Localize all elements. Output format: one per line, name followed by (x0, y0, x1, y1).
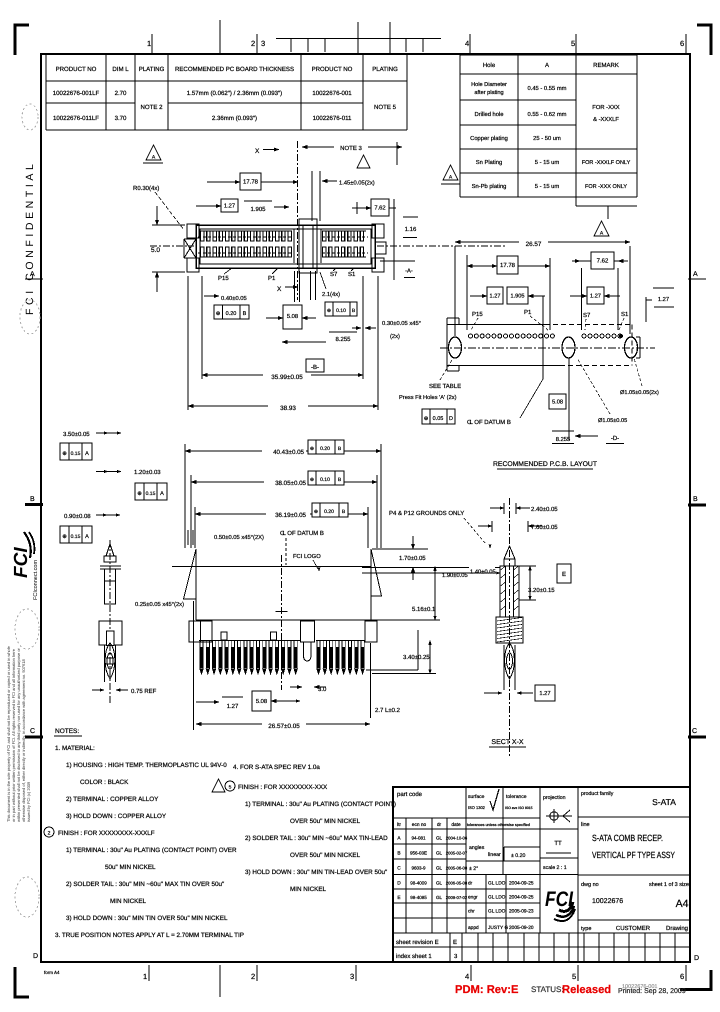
svg-text:Sn Plating: Sn Plating (476, 159, 502, 166)
svg-text:P1: P1 (268, 275, 276, 282)
svg-text:RECOMMENDED P.C.B. LAYOUT: RECOMMENDED P.C.B. LAYOUT (493, 461, 597, 468)
svg-text:R0.30(4x): R0.30(4x) (133, 185, 159, 192)
svg-text:5 - 15 um: 5 - 15 um (535, 184, 560, 190)
svg-text:GL: GL (436, 836, 443, 841)
svg-text:Ø1.05±0.05(2x): Ø1.05±0.05(2x) (620, 389, 659, 396)
svg-text:1.57mm (0.062") / 2.36mm (0.09: 1.57mm (0.062") / 2.36mm (0.093") (187, 90, 282, 97)
svg-text:10022676-011LF: 10022676-011LF (53, 115, 99, 122)
svg-text:2005-02-07: 2005-02-07 (446, 851, 468, 856)
svg-text:⊕: ⊕ (314, 509, 318, 515)
svg-text:Released: Released (562, 984, 611, 996)
svg-text:after plating: after plating (474, 89, 503, 96)
svg-text:FOR -XXX: FOR -XXX (592, 104, 620, 111)
svg-text:25 - 50 um: 25 - 50 um (533, 135, 561, 142)
svg-text:angles: angles (469, 845, 485, 851)
svg-text:FCI: FCI (11, 547, 32, 578)
svg-text:9603-9: 9603-9 (411, 866, 426, 871)
svg-text:0.55 - 0.62 mm: 0.55 - 0.62 mm (528, 111, 567, 118)
svg-text:1.27: 1.27 (490, 294, 501, 300)
svg-text:0.30±0.05 x45°: 0.30±0.05 x45° (382, 320, 421, 327)
svg-text:94-081: 94-081 (411, 836, 426, 841)
svg-text:3) HOLD DOWN : 30u" MIN TIN-LE: 3) HOLD DOWN : 30u" MIN TIN-LEAD OVER 50… (245, 869, 387, 876)
svg-text:date: date (451, 822, 461, 828)
svg-text:2.70: 2.70 (115, 90, 127, 97)
svg-text:5.16±0.1: 5.16±0.1 (412, 606, 436, 613)
svg-text:P15: P15 (218, 275, 229, 282)
svg-text:5.08: 5.08 (256, 698, 267, 705)
svg-text:FOR -XXX ONLY: FOR -XXX ONLY (585, 184, 627, 190)
svg-text:FINISH : FOR XXXXXXXX-XXXLF: FINISH : FOR XXXXXXXX-XXXLF (58, 830, 155, 837)
svg-text:1.27: 1.27 (590, 294, 601, 300)
svg-text:FCI CONFIDENTIAL: FCI CONFIDENTIAL (24, 161, 36, 315)
svg-text:linear: linear (488, 852, 501, 858)
svg-text:Hole: Hole (483, 62, 496, 69)
svg-text:NOTE 3: NOTE 3 (340, 145, 362, 152)
svg-text:0.15: 0.15 (71, 534, 81, 540)
svg-text:3) HOLD DOWN : COPPER ALLOY: 3) HOLD DOWN : COPPER ALLOY (66, 813, 167, 820)
svg-text:CUSTOMER: CUSTOMER (616, 925, 651, 932)
svg-text:10022676-001: 10022676-001 (312, 90, 352, 97)
svg-text:S7: S7 (330, 271, 338, 278)
svg-text:B: B (397, 851, 400, 857)
svg-text:GL: GL (436, 881, 443, 886)
svg-text:NOTE 2: NOTE 2 (140, 104, 163, 111)
svg-text:0.20: 0.20 (226, 311, 237, 317)
svg-text:35.99±0.05: 35.99±0.05 (271, 374, 303, 381)
svg-text:3: 3 (350, 972, 354, 981)
svg-text:2: 2 (251, 972, 255, 981)
svg-text:1.27: 1.27 (224, 203, 235, 210)
svg-text:1.27: 1.27 (539, 690, 550, 697)
svg-text:Press Fit Holes 'A' (2x): Press Fit Holes 'A' (2x) (399, 394, 457, 401)
svg-text:GL: GL (436, 851, 443, 856)
svg-text:0.10: 0.10 (336, 308, 346, 314)
svg-text:SEE TABLE: SEE TABLE (429, 383, 461, 390)
svg-text:S1: S1 (621, 311, 629, 318)
svg-text:& -XXXLF: & -XXXLF (593, 116, 619, 123)
svg-text:5: 5 (571, 39, 575, 48)
svg-text:40.43±0.05: 40.43±0.05 (273, 449, 304, 456)
svg-text:3.40±0.25: 3.40±0.25 (403, 654, 430, 661)
svg-text:MIN NICKEL: MIN NICKEL (110, 898, 147, 905)
svg-text:10022676-001LF: 10022676-001LF (53, 90, 100, 97)
svg-text:PRODUCT NO: PRODUCT NO (56, 66, 97, 73)
svg-text:⊕: ⊕ (424, 416, 429, 422)
svg-text:98-4009: 98-4009 (410, 881, 427, 886)
svg-text:4: 4 (465, 39, 469, 48)
svg-text:tolerance: tolerance (506, 794, 527, 800)
svg-text:36.19±0.05: 36.19±0.05 (275, 512, 306, 519)
svg-text:⊕: ⊕ (310, 477, 314, 483)
svg-text:STATUS:: STATUS: (531, 985, 564, 994)
svg-text:JUSTY G: JUSTY G (488, 925, 508, 931)
svg-text:ecn no: ecn no (412, 823, 427, 828)
svg-text:1.20±0.03: 1.20±0.03 (134, 469, 161, 476)
svg-text:2: 2 (48, 831, 51, 837)
svg-text:10022676: 10022676 (592, 898, 623, 905)
svg-text:D: D (449, 416, 453, 422)
svg-text:1) TERMINAL : 30u" Au PLATING: 1) TERMINAL : 30u" Au PLATING (CONTACT P… (66, 847, 237, 854)
svg-text:dwg no: dwg no (581, 882, 599, 888)
svg-text:0.50±0.05 x45°(2X): 0.50±0.05 x45°(2X) (214, 534, 264, 541)
svg-text:X: X (255, 148, 260, 155)
svg-text:Drawing: Drawing (666, 925, 688, 932)
svg-text:6: 6 (680, 39, 684, 48)
svg-text:1.27: 1.27 (227, 703, 239, 710)
svg-text:FCIconnect.com: FCIconnect.com (33, 560, 39, 600)
svg-text:3.20±0.15: 3.20±0.15 (528, 587, 555, 594)
svg-text:1: 1 (147, 39, 151, 48)
svg-text:-A-: -A- (405, 269, 413, 275)
svg-text:3.70: 3.70 (115, 115, 127, 122)
svg-text:GL LDO: GL LDO (488, 909, 506, 915)
svg-text:line: line (581, 822, 590, 828)
svg-text:1.905: 1.905 (511, 294, 525, 300)
svg-text:B: B (243, 311, 247, 317)
svg-text:GL LDO: GL LDO (488, 895, 506, 901)
svg-text:D: D (694, 955, 699, 962)
svg-text:tolerances unless otherwise sp: tolerances unless otherwise specified (467, 823, 530, 827)
svg-text:DIM L: DIM L (112, 66, 129, 73)
svg-text:sheet 1 of 3 size: sheet 1 of 3 size (649, 882, 689, 888)
svg-text:dr: dr (468, 881, 473, 887)
svg-text:0.20: 0.20 (324, 509, 334, 515)
svg-text:4. FOR S-ATA SPEC REV 1.0a: 4. FOR S-ATA SPEC REV 1.0a (233, 764, 320, 771)
svg-text:2.1(4x): 2.1(4x) (322, 291, 340, 298)
svg-text:D: D (397, 881, 401, 887)
svg-text:17.78: 17.78 (243, 179, 259, 186)
svg-text:± 2°: ± 2° (469, 866, 478, 872)
svg-text:L OF DATUM B: L OF DATUM B (283, 530, 324, 537)
svg-text:-B-: -B- (311, 364, 319, 371)
svg-text:COLOR : BLACK: COLOR : BLACK (80, 779, 129, 786)
svg-text:A: A (85, 451, 89, 457)
svg-text:5.08: 5.08 (552, 400, 563, 406)
svg-text:38.93: 38.93 (280, 405, 296, 412)
svg-text:PDM: Rev:E: PDM: Rev:E (455, 984, 519, 996)
svg-text:7.62: 7.62 (597, 258, 609, 265)
svg-text:2) SOLDER TAIL : 30u" MIN ~60u: 2) SOLDER TAIL : 30u" MIN ~60u" MAX TIN … (66, 881, 224, 888)
svg-text:issued by FCI (c) 2009: issued by FCI (c) 2009 (26, 781, 31, 822)
svg-text:1.905: 1.905 (250, 206, 266, 213)
svg-text:appd: appd (468, 925, 479, 931)
svg-text:2005-09-23: 2005-09-23 (509, 909, 534, 915)
svg-text:2: 2 (251, 39, 255, 48)
svg-text:2004-10-06: 2004-10-06 (446, 836, 468, 841)
svg-text:1.70±0.05: 1.70±0.05 (399, 555, 426, 562)
svg-text:5 - 15 um: 5 - 15 um (535, 160, 560, 166)
svg-text:4: 4 (465, 972, 469, 981)
svg-text:3.0: 3.0 (318, 686, 327, 693)
svg-text:D: D (33, 953, 38, 960)
svg-text:part code: part code (397, 791, 423, 798)
svg-text:2005-06-08: 2005-06-08 (446, 866, 468, 871)
svg-text:3: 3 (261, 39, 265, 48)
svg-text:1) HOUSING : HIGH TEMP. THERMO: 1) HOUSING : HIGH TEMP. THERMOPLASTIC UL… (66, 762, 227, 769)
svg-text:S7: S7 (583, 312, 591, 319)
svg-text:3. TRUE POSITION NOTES APPLY A: 3. TRUE POSITION NOTES APPLY AT L = 2.70… (55, 932, 244, 939)
svg-text:0.10: 0.10 (320, 477, 330, 483)
svg-text:PLATING: PLATING (372, 66, 398, 73)
svg-text:GL LDO: GL LDO (488, 881, 506, 887)
svg-text:P1: P1 (524, 309, 532, 316)
svg-text:⊕: ⊕ (327, 308, 331, 314)
svg-text:FOR -XXXLF ONLY: FOR -XXXLF ONLY (582, 160, 631, 166)
svg-text:C: C (397, 866, 401, 872)
svg-text:2) SOLDER TAIL : 30u" MIN ~60u: 2) SOLDER TAIL : 30u" MIN ~60u" MAX TIN-… (245, 835, 388, 842)
svg-text:E: E (453, 939, 457, 946)
svg-text:B: B (30, 496, 35, 503)
svg-text:2006-05-08: 2006-05-08 (446, 881, 468, 886)
svg-text:Hole Diameter: Hole Diameter (471, 81, 507, 88)
svg-text:L OF DATUM B: L OF DATUM B (470, 419, 511, 426)
svg-text:2005-09-20: 2005-09-20 (509, 925, 534, 931)
svg-text:E: E (397, 895, 400, 901)
svg-text:Ø1.05±0.05: Ø1.05±0.05 (598, 418, 627, 424)
svg-text:2.7 L±0.2: 2.7 L±0.2 (375, 707, 401, 714)
svg-text:7.60±0.05: 7.60±0.05 (531, 524, 558, 531)
svg-text:8.255: 8.255 (335, 336, 351, 343)
svg-text:5: 5 (572, 972, 576, 981)
svg-text:NOTE 5: NOTE 5 (374, 104, 397, 111)
svg-text:2004-09-25: 2004-09-25 (509, 881, 534, 887)
svg-text:0.25±0.05 x45°(2x): 0.25±0.05 x45°(2x) (135, 601, 184, 608)
svg-text:(2x): (2x) (390, 333, 400, 340)
svg-text:3.50±0.05: 3.50±0.05 (63, 431, 90, 438)
svg-text:A: A (85, 534, 89, 540)
svg-text:S-ATA: S-ATA (652, 797, 676, 807)
svg-text:Drilled hole: Drilled hole (475, 111, 504, 118)
svg-text:scale 2 : 1: scale 2 : 1 (543, 865, 567, 871)
svg-text:⊕: ⊕ (310, 446, 314, 452)
svg-text:index sheet 1: index sheet 1 (396, 953, 432, 960)
svg-text:TT: TT (554, 840, 562, 847)
svg-text:FCI LOGO: FCI LOGO (293, 553, 321, 560)
svg-text:50u" MIN NICKEL: 50u" MIN NICKEL (105, 864, 156, 871)
svg-text:P4 & P12 GROUNDS ONLY: P4 & P12 GROUNDS ONLY (389, 510, 464, 517)
svg-text:0.20: 0.20 (320, 446, 330, 452)
svg-text:1.16: 1.16 (405, 226, 417, 233)
svg-text:5.0: 5.0 (151, 247, 160, 254)
svg-text:dr: dr (437, 822, 442, 828)
svg-text:8.255: 8.255 (556, 436, 571, 443)
svg-text:2.40±0.05: 2.40±0.05 (531, 506, 558, 513)
svg-text:3) HOLD DOWN : 30u" MIN TIN OV: 3) HOLD DOWN : 30u" MIN TIN OVER 50u" MI… (66, 915, 228, 922)
svg-text:2.36mm (0.093"): 2.36mm (0.093") (212, 115, 257, 122)
svg-text:1. MATERIAL:: 1. MATERIAL: (55, 745, 95, 752)
svg-text:surface: surface (468, 794, 485, 800)
svg-text:1.45±0.05(2x): 1.45±0.05(2x) (339, 180, 375, 187)
svg-text:Copper plating: Copper plating (470, 135, 508, 142)
svg-text:A: A (693, 271, 698, 278)
svg-text:10022676-011: 10022676-011 (313, 115, 352, 122)
svg-text:S-ATA COMB RECEP.: S-ATA COMB RECEP. (592, 833, 663, 843)
svg-text:MIN NICKEL: MIN NICKEL (290, 886, 327, 893)
svg-text:C: C (692, 728, 697, 735)
svg-text:FINISH : FOR XXXXXXXX-XXX: FINISH : FOR XXXXXXXX-XXX (238, 784, 328, 791)
svg-text:SECT X-X: SECT X-X (491, 739, 523, 746)
svg-text:X: X (277, 286, 282, 293)
svg-text:5.08: 5.08 (287, 313, 298, 320)
svg-text:98-4085: 98-4085 (410, 895, 427, 900)
svg-text:A4: A4 (676, 898, 689, 910)
svg-text:1.40±0.05: 1.40±0.05 (470, 569, 496, 576)
svg-text:PLATING: PLATING (139, 66, 165, 73)
svg-text:Printed: Sep 28, 2009: Printed: Sep 28, 2009 (618, 987, 686, 995)
svg-text:A: A (545, 62, 549, 69)
svg-text:-D-: -D- (611, 435, 619, 442)
svg-text:0.40±0.05: 0.40±0.05 (221, 295, 247, 302)
svg-text:0.15: 0.15 (146, 491, 156, 497)
svg-text:6: 6 (680, 972, 684, 981)
svg-text:2004-09-25: 2004-09-25 (509, 895, 534, 901)
svg-text:ISO 1302: ISO 1302 (468, 805, 486, 810)
svg-text:⊕: ⊕ (62, 534, 67, 540)
svg-text:1.27: 1.27 (658, 296, 669, 303)
svg-text:chr: chr (468, 909, 475, 915)
svg-text:A: A (160, 491, 164, 497)
svg-text:C: C (30, 728, 35, 735)
svg-text:26.57: 26.57 (526, 241, 542, 248)
svg-text:17.78: 17.78 (500, 262, 516, 269)
svg-text:NOTES:: NOTES: (55, 728, 79, 735)
svg-text:5: 5 (229, 785, 232, 791)
svg-text:956-03E: 956-03E (410, 851, 427, 856)
svg-text:± 0.20: ± 0.20 (511, 853, 525, 859)
svg-text:⊕: ⊕ (216, 311, 221, 317)
svg-text:1) TERMINAL : 30u" Au PLATING: 1) TERMINAL : 30u" Au PLATING (CONTACT P… (245, 801, 396, 808)
svg-text:0.75 REF: 0.75 REF (131, 688, 157, 695)
svg-text:0.45 - 0.55 mm: 0.45 - 0.55 mm (528, 85, 567, 92)
svg-text:26.57±0.05: 26.57±0.05 (268, 723, 300, 730)
svg-text:7.62: 7.62 (374, 205, 385, 212)
svg-text:0.15: 0.15 (71, 451, 81, 457)
svg-text:Sn-Pb plating: Sn-Pb plating (472, 183, 507, 190)
svg-text:projection: projection (543, 795, 566, 801)
svg-text:38.05±0.05: 38.05±0.05 (275, 480, 306, 487)
svg-text:ltr: ltr (397, 822, 401, 828)
svg-text:VERTICAL PF TYPE ASSY: VERTICAL PF TYPE ASSY (592, 850, 675, 860)
svg-text:P15: P15 (472, 311, 483, 318)
svg-text:B: B (693, 496, 698, 503)
svg-text:REMARK: REMARK (593, 62, 619, 69)
svg-text:OVER 50u" MIN NICKEL: OVER 50u" MIN NICKEL (290, 818, 361, 825)
svg-text:sheet revision E: sheet revision E (396, 939, 439, 946)
svg-text:form A4: form A4 (44, 970, 60, 975)
svg-text:GL: GL (436, 866, 443, 871)
svg-text:PRODUCT NO: PRODUCT NO (312, 66, 353, 73)
svg-text:E: E (562, 571, 566, 578)
svg-text:S1: S1 (348, 271, 356, 278)
svg-text:ISO ave ISO 8015: ISO ave ISO 8015 (505, 806, 533, 810)
svg-text:⊕: ⊕ (62, 451, 67, 457)
svg-text:engr: engr (468, 896, 478, 901)
svg-text:GL: GL (436, 895, 443, 900)
svg-text:RECOMMENDED PC BOARD THICKNESS: RECOMMENDED PC BOARD THICKNESS (175, 66, 294, 73)
svg-text:⊕: ⊕ (137, 491, 142, 497)
svg-text:0.05: 0.05 (433, 416, 444, 422)
svg-text:2009-07-02: 2009-07-02 (446, 895, 468, 900)
svg-text:OVER 50u" MIN NICKEL: OVER 50u" MIN NICKEL (290, 852, 361, 859)
svg-text:1: 1 (143, 972, 147, 981)
svg-text:2) TERMINAL : COPPER ALLOY: 2) TERMINAL : COPPER ALLOY (66, 796, 159, 803)
svg-text:product family: product family (581, 791, 614, 797)
svg-text:0.90±0.08: 0.90±0.08 (64, 513, 91, 520)
svg-text:type: type (581, 926, 591, 932)
